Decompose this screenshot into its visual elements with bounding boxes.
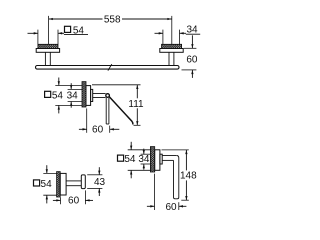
dimension 54 top arrow hook xyxy=(46,169,48,173)
extension line top of plate to 111 xyxy=(92,84,141,86)
svg-text:54: 54 xyxy=(124,154,136,165)
housing paper holder xyxy=(91,89,93,101)
wall section hatch right mount xyxy=(162,44,182,48)
arm to pivot xyxy=(93,93,106,95)
extension line plate top paper holder xyxy=(55,85,86,87)
svg-text:54: 54 xyxy=(41,179,53,190)
label square-54 paper holder xyxy=(45,91,51,97)
extension line housing bottom spare xyxy=(141,163,155,165)
dimension 54 top arrow spare holder xyxy=(130,146,132,150)
post stem right mount xyxy=(168,52,170,65)
extension line plate left edge xyxy=(37,30,39,45)
extension line bar bottom to 148 xyxy=(181,199,189,201)
svg-text:54: 54 xyxy=(52,90,64,101)
extension line knob outer hook xyxy=(84,190,86,204)
dimension 34 bottom arrow paper holder xyxy=(70,102,72,106)
extension line wall face paper holder xyxy=(86,108,88,132)
svg-text:111: 111 xyxy=(128,99,144,110)
extension line housing top spare xyxy=(141,153,155,155)
label square-54 spare holder xyxy=(118,155,124,161)
extension line plate bottom paper holder xyxy=(55,104,86,106)
wall section hatch left mount xyxy=(38,44,58,48)
wall section hatch spare holder xyxy=(150,147,154,172)
svg-text:34: 34 xyxy=(67,90,79,101)
dimension 43 bottom arrow xyxy=(98,188,100,192)
extension line housing top paper holder xyxy=(68,88,87,90)
post stem left mount xyxy=(44,52,46,65)
wall section hatch paper holder xyxy=(82,82,86,107)
stem hook xyxy=(66,180,81,182)
svg-text:60: 60 xyxy=(186,55,198,66)
dimension 54 top arrow paper holder xyxy=(58,81,60,85)
extension line bar outer spare holder xyxy=(178,202,180,210)
break mark on rail xyxy=(108,64,112,71)
svg-text:60: 60 xyxy=(92,124,104,135)
svg-text:60: 60 xyxy=(165,202,177,213)
dimension 34 right arrow xyxy=(180,32,184,34)
dimension 111 line top xyxy=(136,85,138,99)
wall section hatch hook xyxy=(57,172,61,197)
svg-text:34: 34 xyxy=(138,154,150,165)
hanger bar spare holder xyxy=(174,156,179,199)
arm spare holder xyxy=(162,155,176,157)
svg-text:60: 60 xyxy=(68,195,80,206)
leader line under square-54 xyxy=(64,34,88,36)
dimension 34 top arrow spare holder xyxy=(143,150,145,154)
dimension 60 left arrow paper holder xyxy=(83,128,87,130)
dimension 60 right arrow paper holder xyxy=(110,128,114,130)
extension line flap bottom to 111 xyxy=(134,124,141,126)
extension line plate bottom hook xyxy=(43,194,60,196)
extension line plate top hook xyxy=(43,172,60,174)
rosette plate hook xyxy=(60,173,66,195)
housing spare holder xyxy=(160,154,162,164)
extension line housing bottom paper holder xyxy=(68,101,87,103)
dimension 111 line bottom xyxy=(136,108,138,125)
rosette plate right mount xyxy=(160,49,183,53)
extension line pin outer paper holder xyxy=(109,126,111,133)
rosette plate spare holder xyxy=(155,150,160,171)
extension line plate bottom spare xyxy=(128,169,156,171)
extension line wall face spare holder xyxy=(154,174,156,210)
extension line right of 558 xyxy=(171,16,173,44)
dimension 54 left arrow xyxy=(34,32,38,34)
dimension 60 top arrow xyxy=(191,44,193,48)
dimension 60 right arrow spare holder xyxy=(179,205,183,207)
extension line rail outer edge xyxy=(182,69,197,71)
extension line housing right xyxy=(179,30,181,45)
extension line wall face hook xyxy=(60,197,62,204)
dimension 43 top arrow xyxy=(98,171,100,175)
extension line plate right edge xyxy=(57,30,59,45)
cover flap xyxy=(109,97,133,125)
dimension 60 bottom arrow xyxy=(191,70,193,74)
extension line plate top spare xyxy=(128,149,156,151)
knob hook xyxy=(81,175,85,189)
dimension 34 bottom arrow spare holder xyxy=(143,164,145,168)
dimension 558 line xyxy=(49,18,103,20)
extension line left of 558 xyxy=(48,16,50,44)
leader line under 34 xyxy=(186,33,200,35)
svg-text:558: 558 xyxy=(104,15,121,26)
roll pin bar xyxy=(105,98,107,124)
label square-54 hook xyxy=(34,180,40,186)
towel bar rail xyxy=(36,66,180,70)
dimension 60 left arrow hook xyxy=(56,199,60,201)
extension line knob top xyxy=(87,174,102,176)
extension line knob bottom xyxy=(87,187,102,189)
extension line housing left xyxy=(162,30,164,45)
dimension 148 line bottom xyxy=(185,180,187,200)
label square-54 left xyxy=(65,26,71,32)
dimension 54 bottom arrow hook xyxy=(46,195,48,199)
svg-text:148: 148 xyxy=(180,170,197,181)
rosette plate left mount xyxy=(36,49,59,53)
dimension 148 line top xyxy=(185,150,187,171)
pivot circle xyxy=(106,94,110,98)
dimension 60 left arrow spare holder xyxy=(150,205,154,207)
dimension 34 left arrow xyxy=(159,32,163,34)
dimension 54 bottom arrow spare holder xyxy=(130,170,132,174)
dimension 54 bottom arrow paper holder xyxy=(58,105,60,109)
dimension 54 right arrow xyxy=(58,32,62,34)
extension line wall face right xyxy=(184,47,197,49)
dimension 34 top arrow paper holder xyxy=(70,85,72,89)
dimension 60 right arrow hook xyxy=(85,199,89,201)
rosette plate paper holder xyxy=(86,86,91,106)
extension line plate top to 148 xyxy=(162,149,189,151)
svg-text:43: 43 xyxy=(94,177,106,188)
